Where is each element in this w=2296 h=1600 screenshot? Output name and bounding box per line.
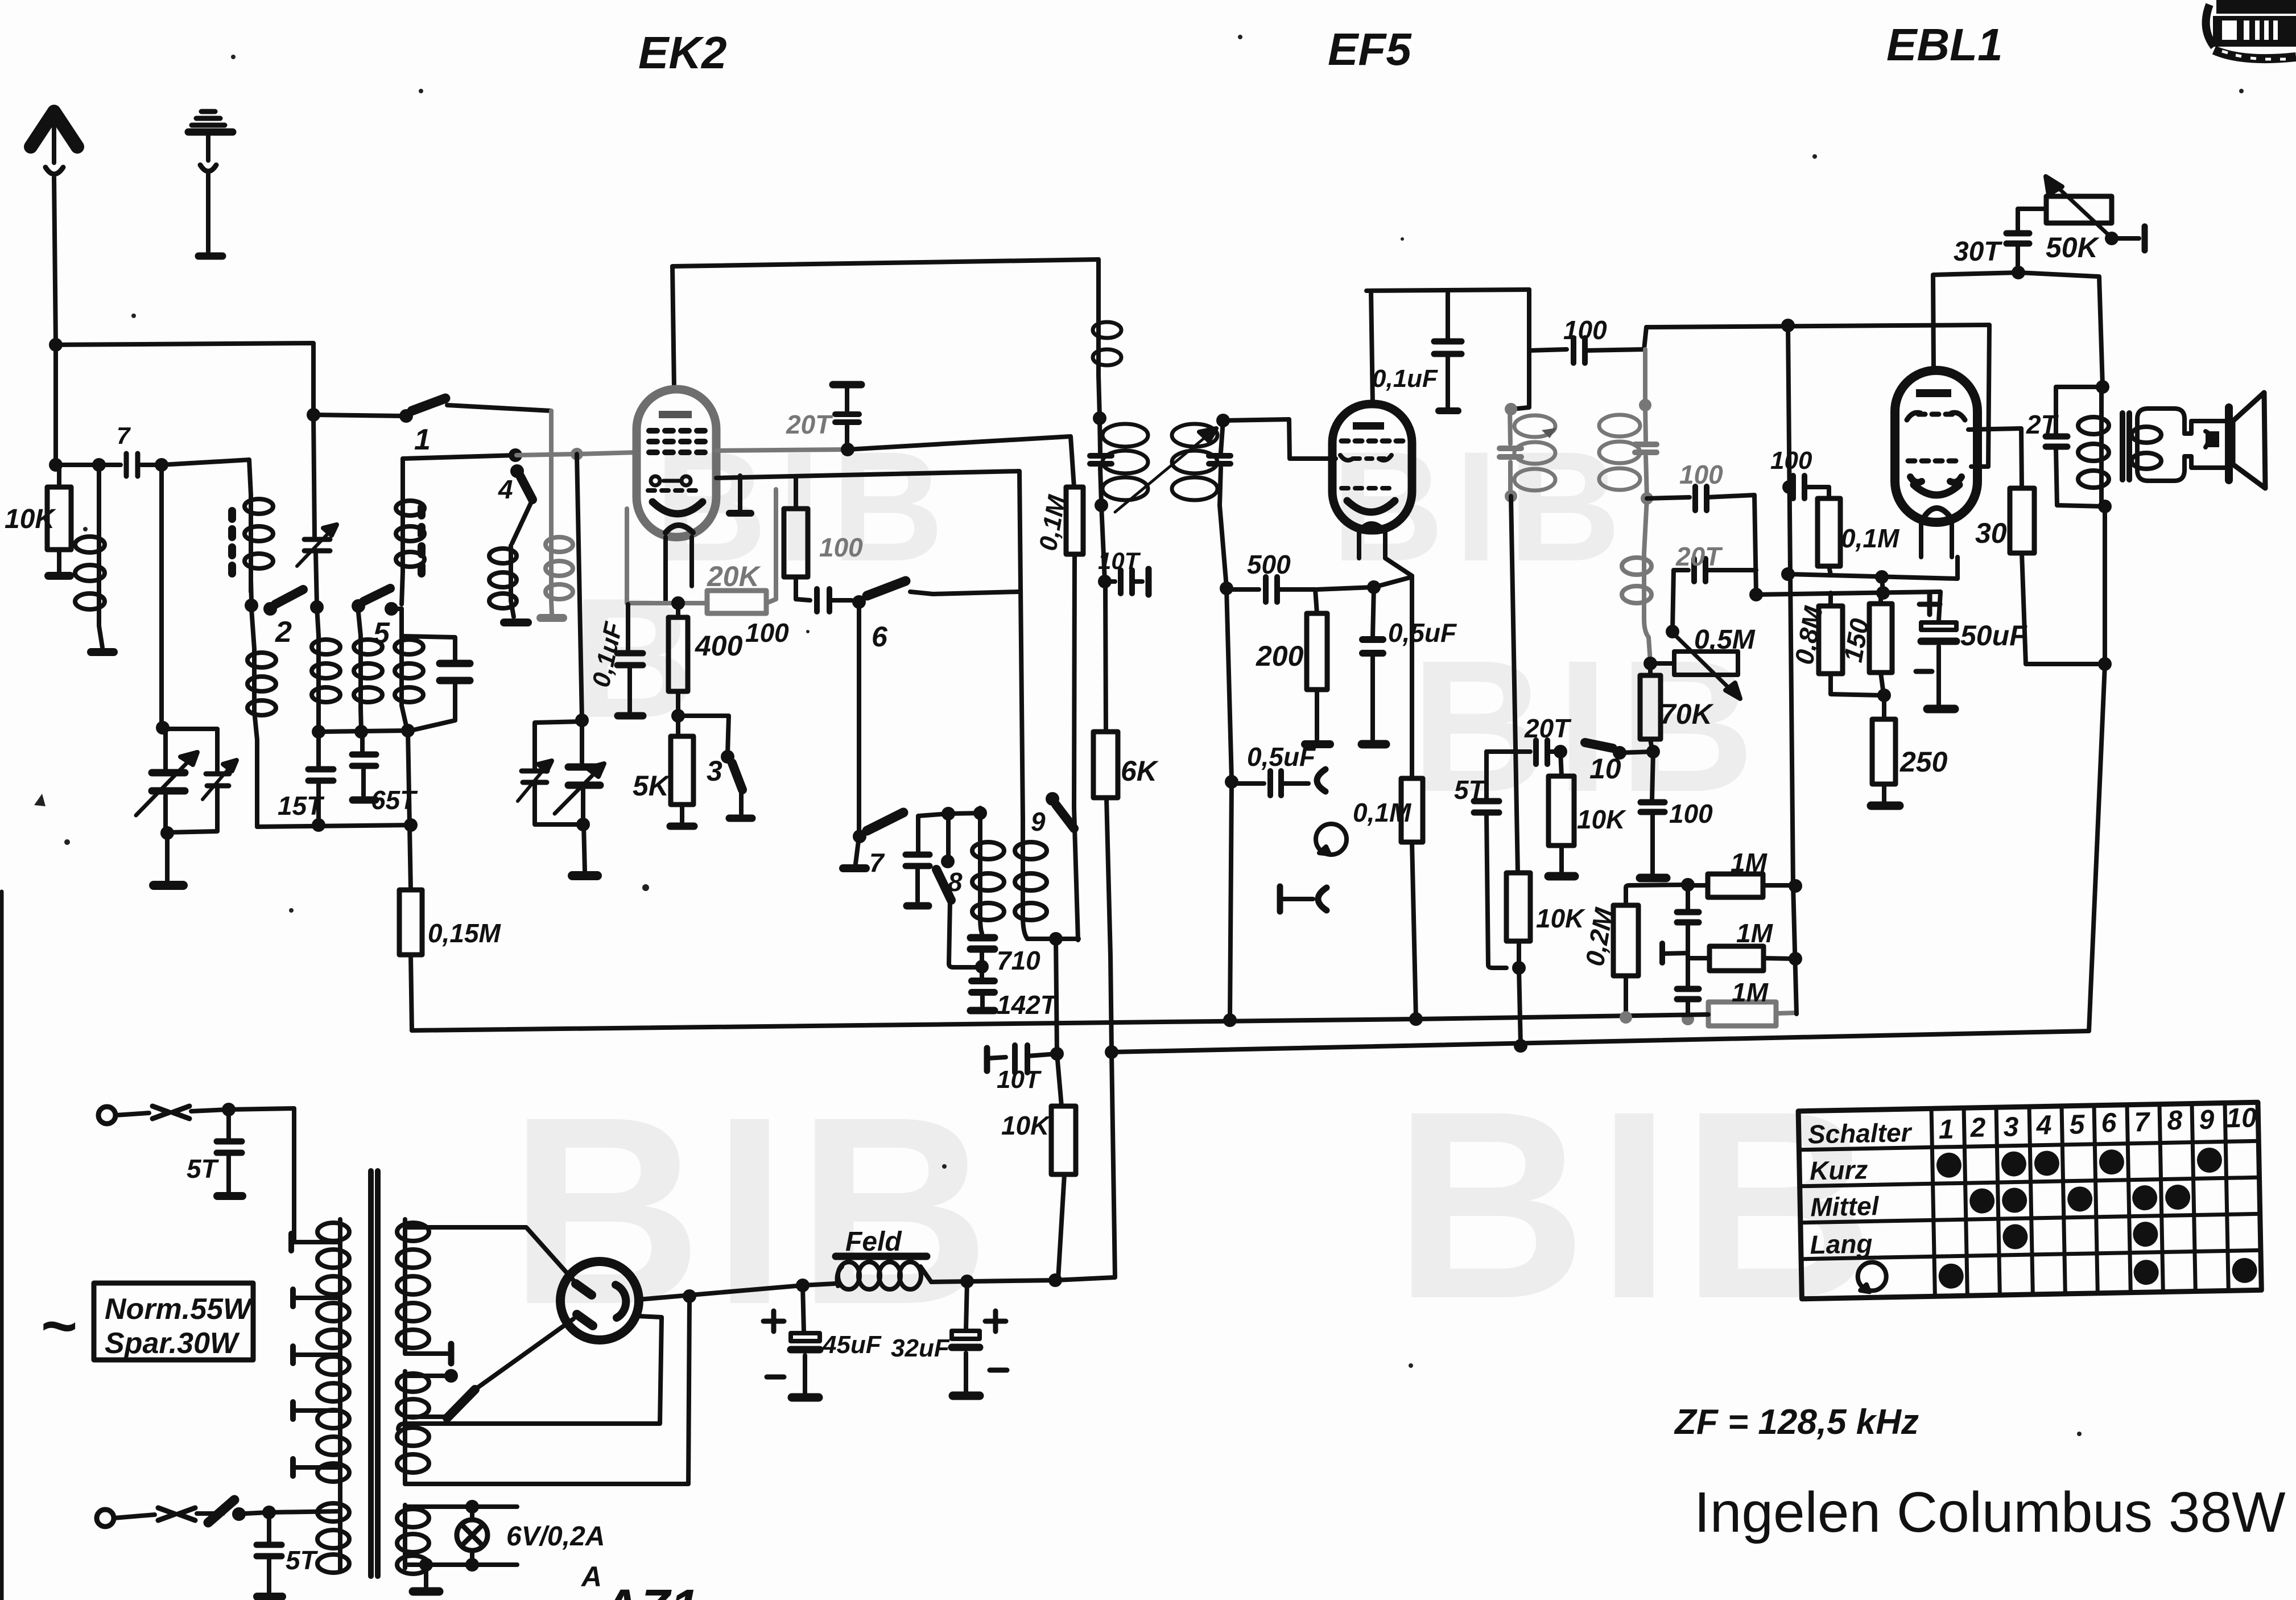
- wire bottom RF bus: [257, 825, 411, 827]
- tube EK2 internals: [648, 411, 705, 533]
- svg-text:1M: 1M: [1732, 978, 1769, 1007]
- wire EK2 top cap lead: [672, 266, 674, 389]
- svg-text:10K: 10K: [1577, 805, 1626, 834]
- coil L2b primary lower: [247, 609, 276, 827]
- wire grid row gray: [517, 452, 637, 455]
- svg-text:10K: 10K: [1536, 904, 1585, 933]
- secondary HV tap top: [405, 1227, 573, 1280]
- capacitor 10T (IF tap): [1105, 569, 1149, 595]
- node bus 15T: [312, 818, 325, 832]
- node 710/142T: [975, 960, 989, 974]
- ground switch column: [843, 836, 866, 868]
- wire grid return to bus: [1230, 782, 1232, 1019]
- switch 4: [510, 464, 532, 543]
- wire EK2 grid row gray through tube: [716, 450, 846, 451]
- tube EBL1 envelope: [1895, 370, 1977, 522]
- resistor 250: [1871, 695, 1899, 806]
- node lamp top: [465, 1500, 479, 1514]
- svg-text:0,1M: 0,1M: [1841, 523, 1900, 553]
- svg-text:30T: 30T: [1954, 237, 2002, 267]
- wire y1286 link: [319, 731, 407, 732]
- node heater ground: [419, 1558, 433, 1572]
- resistor 200: [1305, 613, 1330, 744]
- wire 30 to B+ column: [2026, 662, 2105, 666]
- wire osc top link: [948, 813, 980, 814]
- node osc column: [401, 724, 415, 737]
- resistor 1M b: [1688, 946, 1795, 971]
- choke Feld: [803, 1256, 931, 1289]
- wire IF1 to EF5 grid: [1223, 419, 1336, 459]
- capacitor 100 (EBL1 grid coupling): [1529, 327, 1646, 363]
- resistor 1M a: [1688, 874, 1795, 897]
- svg-text:100: 100: [819, 533, 863, 562]
- IF1 primary (coil + cap): [1090, 418, 1148, 504]
- capacitor 0,5uF (screen): [1362, 587, 1386, 744]
- svg-text:0,5uF: 0,5uF: [1388, 618, 1457, 648]
- wire divider stub: [1882, 577, 1883, 593]
- svg-text:70K: 70K: [1660, 698, 1715, 730]
- node switch4 top: [509, 448, 522, 462]
- node 10K top: [49, 458, 63, 472]
- antenna symbol: [31, 112, 77, 344]
- svg-text:5: 5: [373, 617, 390, 650]
- node 15T top: [312, 725, 325, 739]
- capacitor 45uF: [763, 1285, 820, 1397]
- output transformer primary: [2078, 387, 2109, 506]
- node osc trafo top: [973, 806, 987, 820]
- svg-text:20T: 20T: [1524, 714, 1572, 743]
- node mains upper: [222, 1103, 236, 1116]
- svg-text:20K: 20K: [707, 560, 762, 592]
- chassis stub on screen row: [729, 476, 751, 513]
- IF1 tuning arrow: [1115, 428, 1216, 512]
- gray junction 20K left: [627, 489, 776, 603]
- wire IF1 secondary bottom: [1220, 505, 1227, 587]
- node IF1 primary bottom: [1095, 498, 1108, 512]
- node 32uF: [960, 1275, 974, 1288]
- resistor 150: [1869, 593, 1892, 694]
- coil L4 osc C: [354, 613, 382, 732]
- ground heater winding: [413, 1565, 439, 1591]
- svg-text:4: 4: [2035, 1110, 2052, 1141]
- svg-text:9: 9: [2199, 1105, 2215, 1136]
- wire OT bottom to B+: [2103, 506, 2107, 664]
- wire IF2 sec top to grid bus: [1643, 349, 1647, 405]
- wire gray to coupling coil: [549, 411, 554, 532]
- svg-text:200: 200: [1256, 640, 1304, 672]
- node IF2 secondary top: [1639, 399, 1651, 411]
- node osc B+ tap: [1049, 932, 1063, 946]
- wire switch6 to osc feed column: [933, 592, 1018, 594]
- IF1 secondary (coil + cap): [1172, 420, 1230, 505]
- svg-text:0,5uF: 0,5uF: [1247, 742, 1316, 772]
- bus B+ (lower): [1112, 665, 2105, 1052]
- svg-text:5T: 5T: [187, 1154, 220, 1183]
- svg-text:100: 100: [745, 618, 789, 648]
- wire EBL1 anode right: [1968, 428, 2022, 488]
- oscillator transformer right coil: [1015, 819, 1047, 939]
- svg-text:5K: 5K: [633, 770, 671, 802]
- speaker voice coil: [2184, 421, 2225, 468]
- capacitor 50uF: [1916, 592, 1956, 709]
- wire antenna top run: [56, 343, 401, 416]
- svg-text:7: 7: [117, 422, 131, 449]
- node cathode row left: [1781, 567, 1795, 581]
- output transformer core: [2122, 413, 2129, 480]
- wire detector coupling: [1647, 497, 1690, 498]
- tube EK2 envelope (gray): [637, 389, 716, 537]
- capacitor 20T (AVC): [1674, 559, 1756, 582]
- capacitor 5T: [1474, 752, 1506, 968]
- bus G-rail (upper): [412, 1015, 1708, 1030]
- node OT bottom: [2098, 500, 2112, 513]
- svg-text:10T: 10T: [997, 1066, 1042, 1094]
- tube AZ1 rectifier: [560, 1261, 639, 1340]
- svg-text:1: 1: [1938, 1115, 1954, 1145]
- node IF1 primary top: [1093, 411, 1106, 425]
- wire B+ rail bottom: [931, 1053, 1115, 1282]
- capacitor 142T: [971, 967, 994, 1011]
- svg-text:20T: 20T: [1675, 542, 1723, 571]
- svg-text:10K: 10K: [1001, 1111, 1051, 1140]
- svg-text:Schalter: Schalter: [1807, 1117, 1913, 1149]
- node 100 left: [1782, 480, 1796, 494]
- capacitor 0,1uF EK2: [617, 604, 643, 716]
- resistor 0,2M: [1613, 885, 1687, 1017]
- wire grid2 run to 0,1M: [848, 436, 1074, 487]
- svg-text:7: 7: [869, 848, 885, 877]
- capacitor 20T grid stub: [833, 385, 861, 448]
- mains terminal upper: [98, 1106, 228, 1124]
- node 10K bottom: [1512, 961, 1526, 975]
- node IF2 primary top: [1505, 403, 1517, 415]
- resistor 10K (osc feed): [1051, 1054, 1076, 1279]
- svg-text:A: A: [580, 1561, 602, 1593]
- tube EBL1 internals: [1907, 389, 1965, 516]
- svg-text:100: 100: [1770, 447, 1812, 475]
- wire EF5 anode run: [1366, 290, 1529, 291]
- capacitor 10T (osc): [987, 1045, 1057, 1073]
- node 45uF: [1048, 1273, 1062, 1287]
- svg-text:6V/0,2A: 6V/0,2A: [506, 1521, 605, 1552]
- capacitor 5T lower: [257, 1512, 282, 1597]
- tube EF5 envelope: [1332, 404, 1412, 530]
- svg-text:10T: 10T: [1098, 547, 1141, 574]
- node lamp bottom: [465, 1558, 479, 1572]
- node pot left: [1643, 657, 1657, 670]
- capacitor 20T (AVC filter 1): [1677, 885, 1699, 951]
- resistor 0,15M: [399, 890, 422, 1030]
- wire EBL1 cathode leads: [1921, 522, 1952, 557]
- svg-text:8: 8: [948, 867, 963, 897]
- wire osc tuning column: [577, 454, 582, 719]
- node bias rail: [1876, 586, 1890, 600]
- node 10T IF: [1098, 575, 1112, 588]
- wire y817 row: [56, 460, 249, 465]
- wire AZ1 anode diagonal: [475, 1319, 573, 1389]
- logo stamp: [2206, 0, 2296, 59]
- node antenna top: [49, 338, 63, 352]
- pickup lower terminal: [1280, 886, 1327, 912]
- coil L5 osc D upper: [396, 459, 424, 604]
- capacitor 5T upper: [217, 1110, 242, 1196]
- node grid gray: [571, 448, 583, 460]
- svg-text:~: ~: [40, 1291, 76, 1361]
- ground tuning gang: [154, 835, 183, 885]
- wire EF5 screen row: [1317, 577, 1412, 589]
- node 400 top: [671, 596, 685, 610]
- IF2 primary (gray): [1500, 409, 1555, 495]
- capacitor 100 to ground: [1640, 752, 1666, 878]
- node switch2 line B: [310, 600, 324, 614]
- node grid bus tap: [1781, 319, 1795, 332]
- capacitor 32uF: [952, 1281, 1007, 1396]
- oscillator transformer left coil: [972, 808, 1004, 933]
- pickup symbol: [1316, 824, 1347, 855]
- node RF bus right: [404, 818, 418, 832]
- svg-text:50K: 50K: [2046, 232, 2100, 263]
- node 30T: [2012, 266, 2025, 279]
- node 65T top: [354, 725, 368, 739]
- wire to switch 3: [678, 716, 729, 754]
- svg-text:1M: 1M: [1731, 848, 1768, 877]
- variable capacitor osc gang: [555, 720, 604, 823]
- svg-text:6: 6: [2101, 1108, 2117, 1139]
- svg-text:3: 3: [707, 755, 722, 787]
- wire IF1 primary bottom to 10T: [1101, 505, 1105, 580]
- capacitor 15T: [308, 732, 333, 825]
- svg-text:7: 7: [2134, 1107, 2151, 1138]
- switch 8: [936, 816, 978, 967]
- wire osc column to 0,15M: [408, 731, 411, 890]
- heater selector taps: [407, 1369, 475, 1418]
- node IF2 secondary bottom: [1641, 492, 1653, 505]
- svg-text:Feld: Feld: [845, 1227, 902, 1257]
- svg-text:1: 1: [414, 423, 431, 456]
- switch 6: [852, 581, 933, 609]
- svg-text:100: 100: [1679, 460, 1723, 489]
- resistor 70K: [1640, 663, 1661, 750]
- resistor 0,1M (EF5 cathode): [1401, 576, 1423, 1018]
- svg-text:5T: 5T: [286, 1545, 319, 1575]
- node 10T osc: [1050, 1047, 1064, 1061]
- svg-text:EBL1: EBL1: [1886, 19, 2003, 70]
- node B+ crossing: [1514, 1039, 1527, 1053]
- capacitor across osc coil: [402, 636, 470, 731]
- resistor 1M c (gray): [1708, 1002, 1797, 1026]
- capacitor 20T (det series): [1486, 740, 1560, 764]
- svg-text:32uF: 32uF: [891, 1334, 950, 1362]
- node filament B+: [683, 1289, 696, 1303]
- wire AVC column (EBL1 grid divider): [1788, 325, 1797, 1014]
- paper edge line: [0, 892, 4, 1600]
- capacitor 500: [1227, 577, 1317, 613]
- wire EF5 cathode leads: [1359, 530, 1412, 576]
- svg-text:0,15M: 0,15M: [428, 918, 502, 948]
- svg-text:5T: 5T: [1454, 775, 1487, 805]
- switch 10: [1585, 743, 1653, 760]
- svg-text:10: 10: [2226, 1103, 2257, 1133]
- svg-text:EK2: EK2: [638, 27, 727, 78]
- svg-text:9: 9: [1031, 807, 1046, 836]
- wire EF5 top cap lead: [1371, 291, 1373, 404]
- coil 20T tap (gray): [1622, 498, 1651, 662]
- svg-text:5: 5: [2069, 1110, 2086, 1140]
- resistor 100 (EK2 anode): [784, 477, 808, 599]
- wire AVC rail: [1756, 592, 1940, 595]
- svg-text:Norm.55W: Norm.55W: [105, 1293, 253, 1326]
- node 20T det: [1554, 745, 1567, 758]
- resistor 400: [668, 603, 688, 715]
- svg-text:15T: 15T: [278, 791, 325, 820]
- wire EK2 cathode leads: [666, 537, 692, 602]
- primary taps: [291, 1234, 340, 1476]
- svg-text:0,1M: 0,1M: [1353, 798, 1412, 827]
- svg-text:400: 400: [695, 630, 743, 662]
- svg-text:100: 100: [1669, 799, 1713, 828]
- svg-text:45uF: 45uF: [822, 1331, 882, 1359]
- capacitor 100 coupling: [796, 589, 852, 612]
- switch 7: [853, 813, 903, 843]
- node switch2 left: [245, 599, 258, 612]
- svg-text:50uF: 50uF: [1960, 620, 2027, 651]
- IF1 anode choke feed: [1093, 259, 1121, 417]
- capacitor 0,5uF (pickup): [1232, 769, 1325, 795]
- capacitor 2T: [2046, 387, 2104, 506]
- capacitor 20T (AVC filter 2): [1677, 955, 1699, 1018]
- table row dots: [1936, 1147, 2257, 1289]
- resistor 10K (det load): [1548, 752, 1575, 876]
- wire AZ1 filament top lead: [398, 1316, 662, 1429]
- node coil1 top: [92, 458, 106, 472]
- svg-text:Mittel: Mittel: [1810, 1191, 1880, 1222]
- node AVC rail left: [1749, 588, 1763, 601]
- wire osc bottom row: [1027, 939, 1079, 940]
- wire tuning column: [159, 465, 164, 727]
- speaker: [2229, 393, 2265, 488]
- svg-text:30: 30: [1975, 517, 2007, 549]
- box Norm/Spar: [94, 1283, 253, 1360]
- svg-text:710: 710: [997, 946, 1040, 975]
- switch 5: [352, 588, 398, 616]
- wire osc feed down: [1056, 939, 1057, 1054]
- node G-rail 0,2M: [1620, 1011, 1632, 1024]
- svg-text:2: 2: [275, 616, 292, 649]
- coil L8 coupling gray: [540, 533, 573, 618]
- capacitor 710: [971, 933, 994, 965]
- svg-text:10: 10: [1589, 753, 1621, 785]
- node 0,5uF pickup: [1225, 775, 1238, 789]
- capacitor 100 (det): [1695, 486, 1756, 593]
- variable capacitor C-tune1 (gang section): [136, 729, 197, 833]
- terminal stub AVC: [1662, 943, 1688, 963]
- capacitor 100 (EBL1 grid): [1789, 476, 1829, 498]
- coil L1 antenna shunt: [75, 465, 114, 652]
- node cathode row divider: [1875, 570, 1889, 584]
- node G-rail EF5: [1223, 1013, 1237, 1027]
- table header Schalter: [1807, 1103, 2260, 1259]
- rheostat 50K: [2046, 176, 2145, 250]
- transformer T1 core: [228, 511, 236, 574]
- switch mains: [208, 1500, 268, 1523]
- svg-text:0,5M: 0,5M: [1694, 625, 1756, 655]
- resistor 6K: [1093, 584, 1118, 1051]
- wire EK2 anode top run: [672, 259, 1099, 266]
- resistor 30: [2010, 488, 2034, 664]
- svg-text:142T: 142T: [997, 990, 1059, 1020]
- node tuning line top: [155, 458, 168, 472]
- node EF5 grid return: [1220, 582, 1233, 595]
- svg-text:250: 250: [1899, 746, 1948, 778]
- wire mains upper to primary: [229, 1108, 294, 1242]
- svg-text:B: B: [572, 562, 705, 753]
- capacitor 30T: [2006, 209, 2046, 271]
- output transformer secondary: [2132, 409, 2184, 481]
- node 400 bottom: [671, 709, 685, 723]
- svg-text:Lang: Lang: [1810, 1228, 1873, 1259]
- capacitor padding (by switch 8): [906, 814, 948, 906]
- switch 1: [399, 398, 551, 423]
- trimmer in line B: [297, 525, 337, 566]
- svg-text:Ingelen Columbus 38W: Ingelen Columbus 38W: [1694, 1481, 2286, 1544]
- svg-text:20T: 20T: [786, 410, 833, 439]
- tube EF5 internals: [1340, 422, 1403, 531]
- IF2 anode feed: [1512, 290, 1529, 409]
- svg-text:10K: 10K: [5, 504, 56, 534]
- resistor 0,8M: [1819, 593, 1883, 695]
- svg-text:EF5: EF5: [1328, 24, 1412, 75]
- trimmer across osc gang: [518, 721, 583, 824]
- earth terminal: [188, 112, 233, 256]
- svg-text:BIB: BIB: [1331, 419, 1632, 594]
- node IF1 secondary top: [1216, 414, 1230, 427]
- table phono symbol: [1857, 1262, 1886, 1292]
- node bias bottom: [1877, 688, 1891, 702]
- node osc gang top: [575, 714, 589, 727]
- node B+ column: [2098, 657, 2112, 671]
- capacitor 0,1uF (EF5 stub): [1434, 290, 1461, 411]
- node switch1 feed: [307, 408, 320, 422]
- svg-text:6K: 6K: [1121, 755, 1159, 787]
- switch 3: [721, 750, 752, 818]
- node rectifier out: [796, 1279, 810, 1292]
- wire cathode row: [1788, 557, 1958, 579]
- svg-text:3: 3: [2003, 1112, 2019, 1143]
- wire antenna feed down: [53, 345, 58, 465]
- resistor 20K (gray): [707, 591, 766, 613]
- svg-text:6: 6: [872, 621, 888, 653]
- svg-text:AZ1: AZ1: [601, 1580, 699, 1600]
- node 1M a right: [1789, 879, 1802, 893]
- resistor 10K: [47, 465, 71, 576]
- node AVC col mid: [1789, 952, 1802, 966]
- svg-text:2T: 2T: [2026, 410, 2059, 439]
- node switch8 feed: [941, 807, 955, 820]
- wire sw6 column to sw7: [857, 602, 861, 830]
- switch 2: [263, 589, 303, 616]
- resistor 0,1M (osc grid): [1066, 487, 1083, 940]
- node AVC bus join: [1682, 1013, 1694, 1025]
- wire 30T to output trafo: [2018, 273, 2103, 386]
- secondary CT stub: [405, 1344, 451, 1363]
- power transformer secondary: [397, 1219, 429, 1574]
- coil L7 coupling black: [489, 546, 528, 622]
- wire top bus to EBL1 grid: [1646, 325, 1989, 467]
- coil L2a primary upper: [245, 460, 273, 602]
- node osc gang bottom: [576, 818, 590, 831]
- wire tuning line B: [313, 415, 317, 605]
- wire grid row left: [403, 455, 515, 459]
